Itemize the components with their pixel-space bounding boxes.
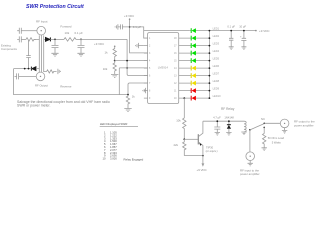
LED6	[183, 64, 220, 71]
resistor R3 (coupler termination bottom)	[44, 70, 57, 73]
relay K1 coil	[244, 121, 246, 132]
resistor R1 (coupler termination top)	[26, 38, 36, 41]
resistor R2 10k (forward)	[64, 31, 77, 41]
svg-text:1N4148: 1N4148	[224, 115, 234, 119]
pin numbers	[149, 38, 177, 100]
capacitor C9 10uF (supply)	[239, 24, 246, 46]
node +9 VDC (divider)	[94, 42, 115, 47]
node forward filter	[54, 39, 56, 41]
LEDs	[183, 27, 222, 101]
svg-text:RF Input: RF Input	[36, 19, 48, 23]
capacitor C5 (reverse branch)	[26, 41, 31, 69]
svg-text:LED6: LED6	[213, 64, 220, 68]
resistor R9 50 ohm load	[263, 134, 285, 148]
svg-text:5 Watts: 5 Watts	[272, 140, 282, 144]
capacitor C8 0.1uF (supply)	[227, 24, 235, 46]
wire J1 left	[21, 30, 37, 32]
ground (pin 8 sideways)	[143, 88, 146, 93]
resistor R5 10k (divider bottom)	[103, 61, 117, 75]
capacitor C6 (output feedthrough)	[15, 73, 19, 79]
wire emitter row	[184, 155, 203, 157]
wire pin 5	[119, 67, 147, 69]
node +9 VDC (LED rail)	[255, 29, 270, 33]
svg-text:3.000: 3.000	[110, 157, 117, 161]
ground (C3)	[51, 53, 58, 56]
LED4	[183, 49, 220, 56]
wire drop to reverse rail	[118, 68, 120, 95]
wire pole down	[249, 130, 251, 152]
ground (coil)	[241, 132, 246, 135]
wire NO to load	[263, 127, 265, 133]
svg-text:RF Output: RF Output	[35, 83, 48, 87]
wire pin 7 drop	[128, 83, 148, 95]
svg-text:+9 VDC: +9 VDC	[94, 42, 104, 46]
resistor R7 10k (base)	[176, 118, 186, 139]
LED9	[183, 87, 220, 94]
wire pin 1 to LED1 row	[130, 27, 190, 38]
svg-text:LED3: LED3	[213, 42, 220, 46]
node +9 VDC (IC supply)	[124, 14, 134, 20]
svg-text:Forward: Forward	[60, 24, 71, 28]
svg-text:SWR Protection Circuit: SWR Protection Circuit	[26, 4, 84, 10]
wire divider to pin 4	[115, 60, 148, 62]
svg-text:10 µF: 10 µF	[239, 24, 246, 28]
wire signal drop to pin 6	[127, 39, 148, 75]
resistor R6 1k (to ground)	[126, 94, 135, 108]
svg-text:power amplifier: power amplifier	[294, 123, 314, 127]
ground (C7 sideways)	[115, 24, 118, 29]
ground (divider)	[111, 74, 118, 77]
wire reverse row	[14, 68, 40, 70]
svg-text:LED Displayed SWR: LED Displayed SWR	[100, 122, 129, 126]
node signal/pin4	[126, 60, 128, 62]
svg-text:(or equiv.): (or equiv.)	[206, 149, 218, 153]
svg-text:Components: Components	[1, 47, 17, 51]
svg-text:+9 VDC: +9 VDC	[124, 14, 134, 18]
note text	[17, 100, 110, 108]
node signal/pin5	[126, 67, 128, 69]
pin stubs right	[179, 38, 183, 98]
wire forward row left	[21, 38, 26, 40]
svg-text:LED9: LED9	[213, 87, 220, 91]
capacitor C2 (forward feedthrough)	[17, 36, 21, 42]
svg-text:LED10: LED10	[213, 94, 221, 98]
svg-text:LED1: LED1	[213, 27, 220, 31]
svg-text:Relay Engaged: Relay Engaged	[124, 157, 144, 161]
ground (R6)	[124, 109, 131, 112]
ground (load)	[262, 148, 267, 151]
diode D2 (reverse detector)	[31, 67, 36, 71]
connector J2 RF Output	[35, 72, 48, 87]
svg-text:LED5: LED5	[213, 57, 220, 61]
svg-text:LED2: LED2	[213, 34, 220, 38]
wire	[50, 38, 64, 40]
node +9 VDC (emitter supply)	[197, 156, 207, 173]
LED8	[183, 79, 220, 86]
wire pin10 down	[183, 98, 185, 118]
svg-text:TIP30: TIP30	[206, 145, 214, 149]
svg-text:10k: 10k	[176, 118, 181, 122]
node D3	[228, 120, 230, 122]
wire rail to +9 VDC	[209, 30, 256, 32]
connector J1 RF Input	[36, 19, 48, 35]
svg-text:50 Ohm Load: 50 Ohm Load	[268, 136, 285, 140]
capacitor C10 4.7uF	[213, 115, 221, 132]
svg-text:4.7 µF: 4.7 µF	[213, 115, 221, 119]
wire to coupler	[34, 38, 45, 40]
LED1	[189, 27, 219, 34]
capacitor C4 0.1uF (forward)	[78, 39, 85, 53]
wire collector rail	[203, 120, 244, 122]
svg-text:+9 VDC: +9 VDC	[259, 29, 270, 33]
LED10	[183, 94, 222, 101]
label Existing Components	[1, 43, 17, 51]
node divider mid	[114, 60, 116, 62]
node emitter	[202, 155, 204, 157]
svg-text:power amplifier: power amplifier	[240, 172, 260, 176]
wire NC to output	[264, 122, 280, 124]
LED anode rail	[208, 31, 210, 99]
svg-text:LED4: LED4	[213, 49, 220, 53]
ground (C8)	[229, 47, 234, 50]
pin stubs left	[144, 38, 148, 98]
svg-text:22k: 22k	[174, 143, 179, 147]
svg-text:0.1 µF: 0.1 µF	[227, 24, 235, 28]
svg-text:Reverse: Reverse	[60, 85, 72, 89]
ground (D3)	[226, 133, 231, 136]
table LED vs SWR	[100, 122, 144, 161]
node base	[183, 138, 185, 140]
node C10	[216, 120, 218, 122]
LED5	[183, 57, 220, 64]
ground (R3 sideways)	[58, 69, 61, 74]
svg-text:10k: 10k	[103, 67, 108, 71]
svg-text:LM3914: LM3914	[158, 65, 169, 69]
ground (J4)	[248, 163, 253, 166]
svg-text:0.1 µF: 0.1 µF	[75, 31, 83, 35]
wire +9 to pin 3	[130, 19, 148, 53]
op-amp U1 LM3914	[136, 33, 183, 104]
transistor Q1	[198, 121, 217, 155]
capacitor C7 0.1uF (decoupling)	[118, 24, 141, 29]
LED2	[183, 34, 220, 41]
node reverse cap	[28, 68, 30, 70]
svg-text:10: 10	[103, 157, 106, 161]
ground (C4)	[77, 53, 84, 56]
wire base	[184, 138, 198, 140]
ground (pin 2 sideways)	[136, 43, 144, 48]
svg-text:+9 VDC: +9 VDC	[197, 168, 207, 172]
diode D1 (forward detector)	[45, 37, 50, 41]
ground (C9)	[241, 47, 246, 50]
capacitor C1 (input feedthrough)	[17, 28, 21, 34]
capacitor C3 (forward filter)	[52, 39, 59, 53]
wire reverse routing to pin7 rail	[14, 69, 128, 95]
wire forward to IC column	[77, 38, 127, 40]
connector J3 RF output to amp	[280, 119, 315, 130]
svg-text:NC: NC	[261, 117, 265, 121]
node decoupling	[129, 26, 131, 28]
wire J2 left	[19, 75, 37, 77]
connector J4 RF input to amp	[240, 152, 260, 176]
svg-text:LED7: LED7	[213, 72, 220, 76]
ground (J3)	[282, 131, 287, 134]
svg-text:10k: 10k	[65, 31, 70, 35]
LED7	[183, 72, 220, 79]
svg-text:SWR or power meter.: SWR or power meter.	[17, 104, 51, 108]
resistor R4 1k (divider top)	[105, 46, 117, 60]
title	[26, 4, 84, 10]
resistor R8 22k (base-emitter)	[174, 139, 187, 155]
node reverse	[24, 68, 26, 70]
directional coupler lines	[39, 35, 43, 72]
node forward out	[80, 39, 82, 41]
node pin10/base feed	[183, 97, 185, 99]
svg-text:LED8: LED8	[213, 79, 220, 83]
relay K1 switch	[249, 117, 265, 131]
ground (C10)	[215, 133, 220, 136]
diode D3 1N4148	[224, 115, 234, 132]
node C8	[230, 30, 232, 32]
svg-text:RF Relay: RF Relay	[221, 107, 235, 111]
LED3	[183, 42, 220, 49]
node C9	[243, 30, 245, 32]
node rail/R6	[127, 94, 129, 96]
